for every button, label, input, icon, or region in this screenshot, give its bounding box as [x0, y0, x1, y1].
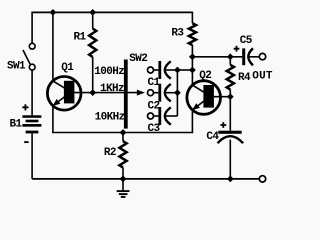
wire SW1 to battery: [31, 70, 33, 115]
svg-text:C3: C3: [148, 123, 161, 135]
wire C4 to bottom rail: [229, 140, 231, 179]
wire left branch top (rail corner to SW1): [31, 12, 33, 44]
wire cap common vertical: [176, 70, 178, 116]
capacitor C3: [148, 107, 178, 125]
wire collector node to C5: [192, 56, 242, 58]
svg-text:OUT: OUT: [252, 71, 273, 83]
resistor R4: [227, 57, 234, 97]
svg-text:100Hz: 100Hz: [94, 66, 124, 78]
resistor R2: [119, 133, 126, 179]
wire Q1 base to node: [74, 92, 92, 94]
node bottom rail / ground: [120, 176, 127, 183]
svg-text:R2: R2: [104, 147, 116, 159]
wire base node to C4: [229, 97, 231, 131]
node bottom rail / C4: [227, 176, 234, 183]
node top rail / R1: [89, 9, 96, 16]
capacitor C4: [218, 131, 244, 144]
capacitor C2: [148, 84, 178, 102]
node C2 / common: [174, 89, 181, 96]
node Q1 base / R1 / SW2 wiper: [89, 89, 96, 96]
svg-text:10KHz: 10KHz: [95, 111, 125, 123]
svg-text:C4: C4: [206, 131, 219, 143]
capacitor C5: [242, 48, 259, 65]
svg-text:C5: C5: [240, 35, 253, 47]
switch SW1: [23, 43, 35, 70]
transistor Q2: [187, 81, 221, 115]
wire caps to Q2 collector: [177, 69, 192, 71]
terminal OUT top: [259, 53, 265, 59]
node top rail / Q1 collector: [50, 9, 57, 16]
wire wiper to SW2: [93, 92, 138, 94]
resistor R1: [89, 12, 96, 92]
svg-text:SW1: SW1: [7, 61, 26, 73]
svg-text:R1: R1: [74, 31, 87, 43]
svg-text:SW2: SW2: [129, 53, 147, 65]
svg-text:Q1: Q1: [61, 62, 74, 74]
svg-text:C2: C2: [148, 101, 160, 113]
wire Q1 collector: [52, 12, 54, 81]
switch SW2 bar: [124, 60, 128, 129]
wire Q2 base to node: [214, 96, 230, 98]
capacitor C5 plus sign: [234, 46, 240, 52]
wire Q1 emitter down: [52, 106, 54, 133]
transistor Q1: [47, 77, 81, 111]
svg-text:R4: R4: [238, 72, 251, 84]
node emitter rail / R2: [120, 129, 127, 136]
wire battery to bottom rail: [31, 133, 33, 179]
node R4 top: [227, 53, 234, 60]
battery B1 minus sign: [24, 141, 28, 143]
node R3 / C5 / R4 row: [189, 53, 196, 60]
switch SW2 wiper arrow: [137, 90, 145, 96]
wire emitter rail: [53, 111, 193, 133]
ground: [117, 179, 130, 197]
node Q2 collector / caps: [189, 67, 196, 74]
svg-text:1KHz: 1KHz: [100, 83, 124, 95]
svg-text:R3: R3: [171, 28, 184, 40]
battery B1: [22, 115, 41, 133]
resistor R3: [189, 12, 196, 86]
wire bottom rail: [32, 178, 259, 180]
capacitor C4 plus sign: [220, 122, 226, 128]
svg-text:Q2: Q2: [199, 70, 211, 82]
terminal ground out: [259, 176, 265, 182]
node C1 / common: [174, 67, 181, 74]
node Q2 base / R4 / C4: [227, 93, 234, 100]
capacitor C1: [148, 61, 178, 79]
wire top rail: [32, 11, 192, 13]
battery B1 plus sign: [22, 104, 28, 110]
svg-text:B1: B1: [10, 118, 23, 130]
